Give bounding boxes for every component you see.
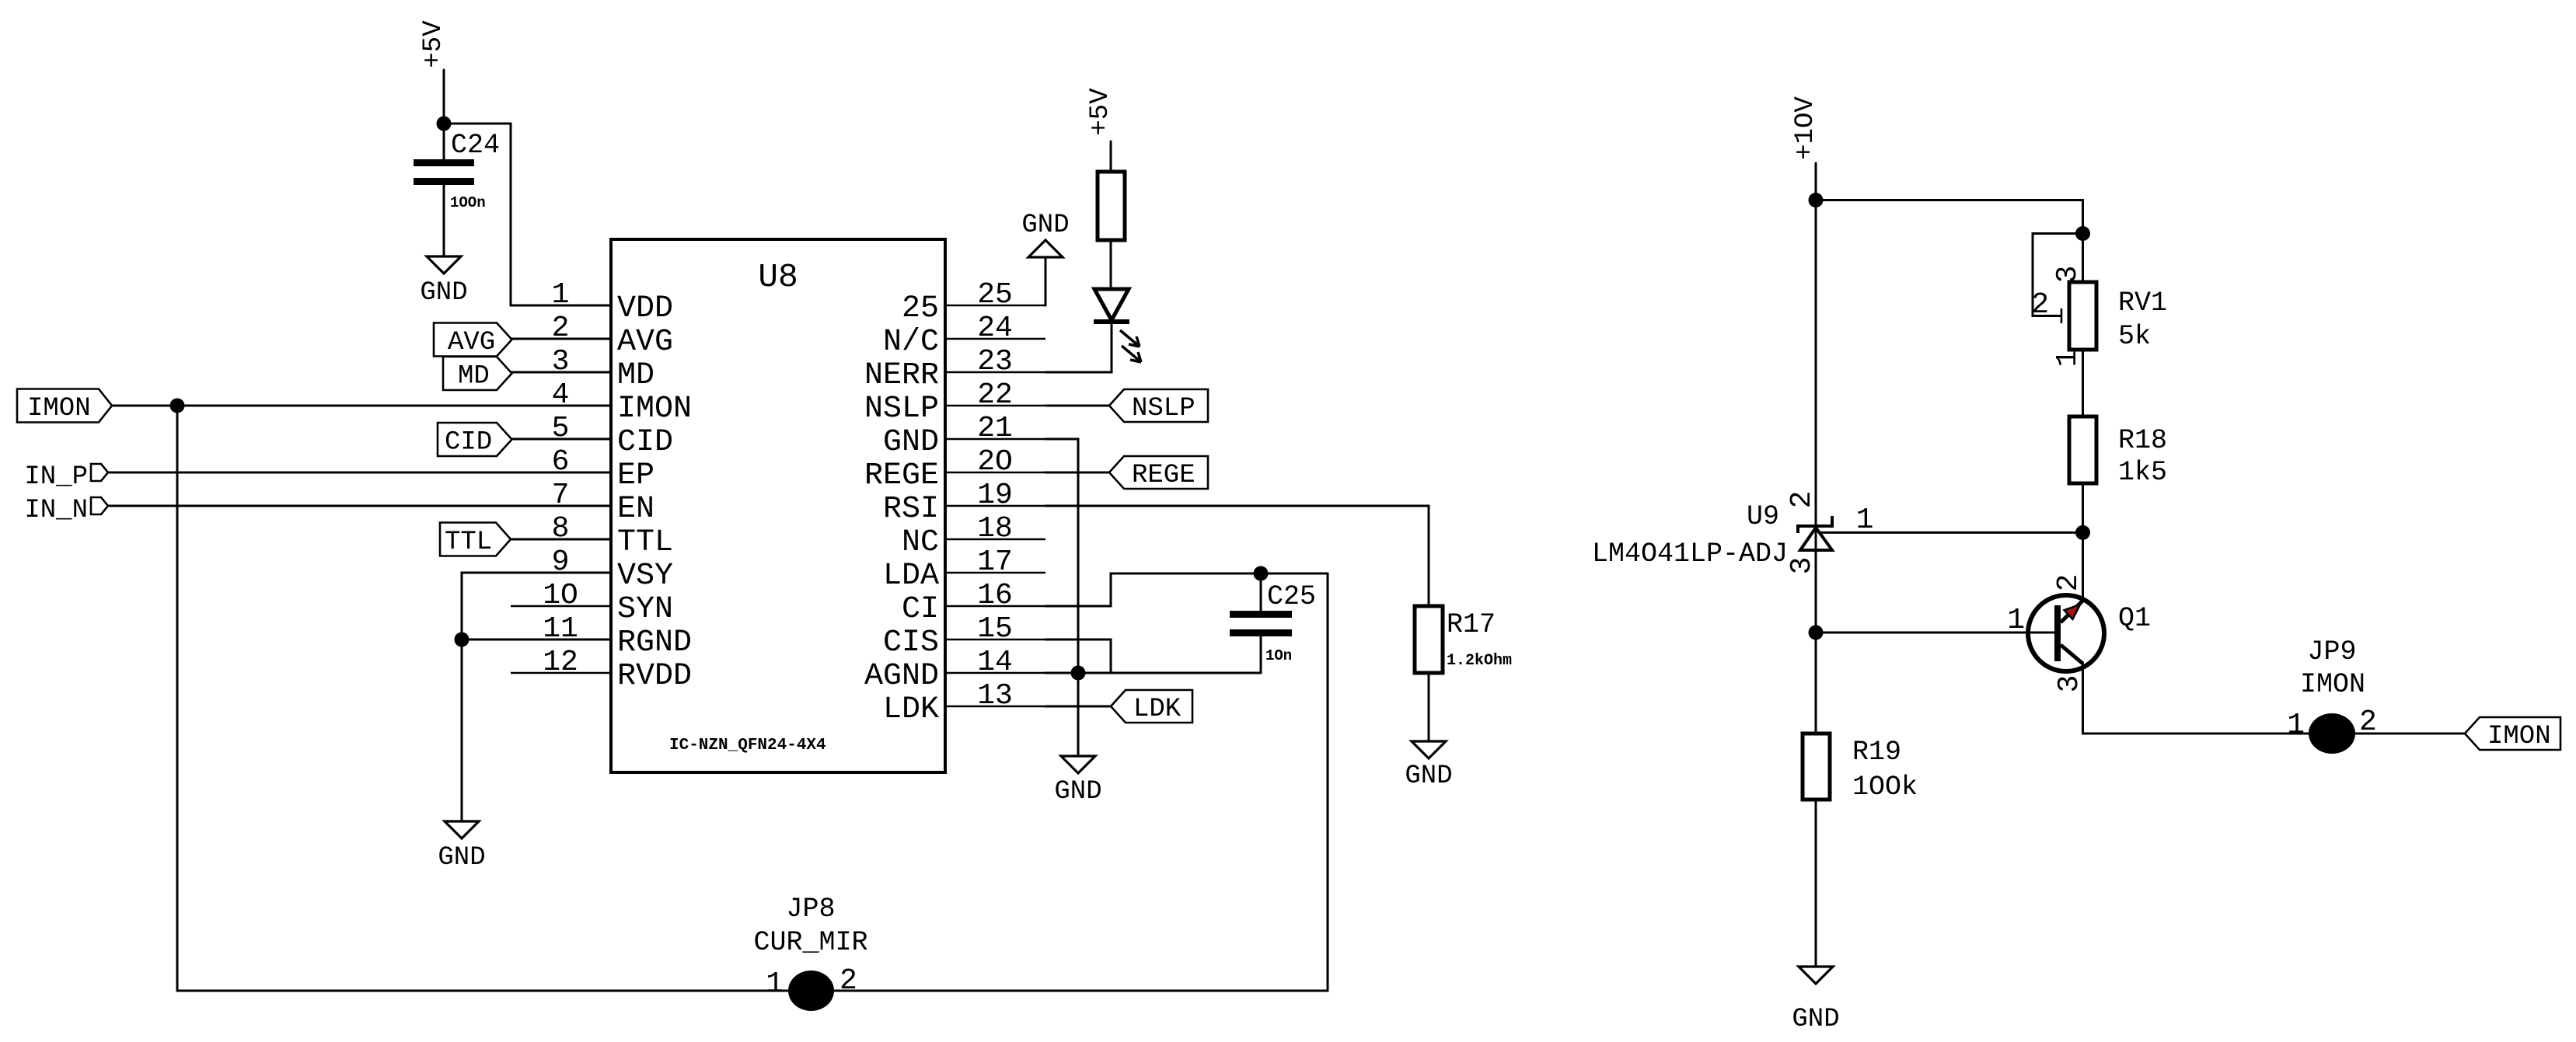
svg-text:1: 1 [1856,504,1874,537]
pin 24 N/C [945,338,1045,340]
svg-text:AVG: AVG [448,328,495,357]
pin 16 CI [945,605,1045,608]
pin 20 REGE [945,472,1045,474]
net label LDK [1111,690,1192,723]
svg-text:3: 3 [552,345,570,378]
transistor Q1 [2028,595,2104,671]
pin 23 NERR [945,371,1045,374]
svg-text:1.2kOhm: 1.2kOhm [1447,652,1512,670]
wire pin 15 CIS down to AGND net [1045,639,1111,673]
junction C25 top [1254,566,1269,581]
capacitor C25 [1260,573,1262,611]
svg-text:IMON: IMON [2487,722,2551,751]
svg-text:2: 2 [1785,491,1819,509]
svg-text:GND: GND [1021,211,1069,240]
resistor R18 [2069,416,2096,483]
resistor (LED series) [1098,172,1125,240]
wire AVG to pin 2 [512,338,612,340]
wire IN_N to pin 7 EN [108,505,611,507]
svg-text:1: 1 [2051,350,2085,368]
pin 5 CID [511,438,611,441]
svg-text:IN_P: IN_P [24,462,88,492]
svg-text:LDK: LDK [1133,695,1182,724]
svg-text:1O: 1O [543,579,578,612]
svg-text:24: 24 [977,312,1013,345]
junction RGND [455,633,469,647]
svg-text:1OOn: 1OOn [450,194,486,211]
svg-text:12: 12 [543,646,578,679]
wire +10V to RV1 [1816,200,2083,283]
svg-text:NSLP: NSLP [1132,394,1196,423]
potentiometer RV1 [2069,282,2096,350]
svg-text:AGND: AGND [864,659,939,694]
svg-text:2: 2 [839,964,857,998]
svg-text:JP8: JP8 [786,894,835,925]
svg-text:6: 6 [552,445,570,479]
LED emission arrows [1120,330,1140,347]
svg-text:25: 25 [977,278,1013,312]
ground (pin 21/AGND) [1061,756,1095,773]
pin 19 RSI [945,505,1045,507]
wire JP9 to IMON label [2355,733,2465,735]
wire pin 22 to NSLP [1045,405,1109,407]
shunt reference U9 LM4041 [1798,516,1832,533]
wire R18 to Q1 emitter [2082,483,2084,600]
pin 6 EP [511,472,611,474]
svg-text:CID: CID [617,425,673,460]
pin 10 SYN [511,605,611,608]
pin 9 VSY [511,572,611,574]
pin 25 25 [945,305,1045,307]
junction R18/U9 [2075,525,2090,540]
svg-text:IMON: IMON [2300,669,2365,700]
wire +5V to resistor [1110,141,1112,172]
svg-text:LM4O41LP-ADJ: LM4O41LP-ADJ [1592,538,1788,570]
wire CID to pin 5 [512,438,612,441]
ground (C24) [427,256,461,274]
svg-text:1: 1 [552,278,570,312]
svg-text:CI: CI [902,592,939,627]
svg-text:21: 21 [977,412,1013,445]
svg-text:R17: R17 [1447,609,1496,640]
svg-text:R19: R19 [1852,737,1901,768]
wire pin 21 GND down [1045,439,1078,756]
junction RV1 top/wiper [2075,226,2090,241]
svg-text:VDD: VDD [617,291,673,326]
wire IMON vertical to JP8 [176,406,179,991]
wire RV1 wiper loop [2033,234,2083,316]
LED D (anode top) [1094,289,1129,320]
svg-text:EN: EN [617,492,654,527]
ground (R19) [1799,967,1833,984]
wire +5V to C24 [443,70,445,159]
net label TTL [440,523,511,556]
pin 17 LDA [945,572,1045,574]
svg-text:R18: R18 [2118,425,2167,456]
svg-text:2O: 2O [977,445,1013,479]
svg-text:23: 23 [977,345,1013,378]
wire pin 13 to LDK [1045,706,1111,708]
svg-text:2: 2 [2031,288,2049,322]
pin 11 RGND [511,639,611,641]
svg-text:GND: GND [420,278,467,308]
svg-text:GND: GND [1405,761,1452,791]
wire RV1 to R18 [2082,350,2084,416]
svg-text:GND: GND [438,843,485,873]
wire Q1 collector to JP9 [2083,664,2309,734]
resistor R19 [1803,734,1830,800]
svg-text:NC: NC [902,525,939,560]
svg-text:REGE: REGE [1132,461,1196,490]
wire R17 to GND [1428,673,1430,741]
pin 13 LDK [945,706,1045,708]
svg-text:+1OV: +1OV [1791,96,1820,160]
svg-text:GND: GND [1792,1005,1839,1034]
svg-text:4: 4 [552,378,570,412]
svg-text:15: 15 [977,612,1013,646]
junction IMON [170,399,185,413]
svg-text:VSY: VSY [617,559,673,594]
svg-text:IMON: IMON [27,394,91,423]
svg-text:1k5: 1k5 [2118,457,2167,488]
pin 3 MD [511,371,611,374]
svg-text:N/C: N/C [883,325,939,360]
svg-text:14: 14 [977,646,1013,679]
wire C24 to GND [443,185,445,256]
junction GND/AGND [1071,666,1086,681]
wire pin 14 AGND to C25 bottom [1045,672,1261,674]
pin 14 AGND [945,672,1045,674]
net label IMON (right) [2465,717,2560,750]
svg-text:1: 1 [2287,709,2305,742]
net label NSLP [1109,389,1208,422]
net label REGE [1109,456,1208,489]
svg-text:19: 19 [977,479,1013,512]
svg-text:U8: U8 [758,258,798,296]
svg-text:MD: MD [617,358,654,393]
capacitor C24 [414,159,474,166]
svg-text:1: 1 [766,967,784,1001]
svg-text:C24: C24 [451,130,500,161]
wire pin 25 to GND [1045,257,1047,305]
net label AVG [434,323,512,357]
svg-text:16: 16 [977,579,1013,612]
svg-text:IMON: IMON [617,392,692,427]
svg-text:8: 8 [552,512,570,545]
wire pin 19 RSI to R17 [1045,506,1429,606]
svg-text:JP9: JP9 [2307,636,2356,667]
pin 18 NC [945,538,1045,541]
svg-text:25: 25 [902,291,939,326]
wire +10V main vertical [1815,163,1817,734]
svg-text:22: 22 [977,378,1013,412]
net label CID [438,423,512,456]
svg-text:5: 5 [552,412,570,445]
svg-text:3: 3 [2051,266,2085,284]
svg-text:11: 11 [543,612,578,646]
wire TTL to pin 8 [511,538,611,541]
net label MD [443,357,512,390]
svg-text:Q1: Q1 [2118,603,2151,634]
svg-text:CUR_MIR: CUR_MIR [753,927,867,958]
svg-text:2: 2 [552,312,570,345]
svg-text:RGND: RGND [617,626,692,660]
jumper JP8 [788,971,834,1011]
svg-text:GND: GND [1054,777,1101,807]
wire U9 pin 1 [1819,531,2083,534]
svg-text:IC-NZN_QFN24-4X4: IC-NZN_QFN24-4X4 [669,737,826,754]
pin 15 CIS [945,639,1045,641]
svg-text:MD: MD [458,362,490,392]
svg-text:RVDD: RVDD [617,659,692,694]
pin 22 NSLP [945,405,1045,407]
wire R19 to GND [1815,800,1817,967]
svg-text:9: 9 [552,545,570,579]
net label IMON (left) [17,389,112,423]
wire resistor to LED [1110,240,1112,288]
pin 2 AVG [511,338,611,340]
svg-text:3: 3 [1785,557,1819,575]
pin 7 EN [511,505,611,507]
svg-text:1On: 1On [1265,647,1292,664]
svg-text:5k: 5k [2118,321,2151,352]
junction +10V [1809,193,1824,207]
wire LED to pin 23 NERR [1045,324,1112,372]
pin 21 GND [945,438,1045,441]
svg-text:13: 13 [977,679,1013,713]
svg-text:RSI: RSI [883,492,939,527]
wire +5V to pin 1 VDD [444,124,611,305]
ground (pin 25, arrow up) [1028,240,1063,257]
svg-text:1: 1 [2007,604,2025,637]
junction U9/Q1 base [1809,626,1824,640]
svg-text:RV1: RV1 [2118,288,2167,319]
svg-text:AVG: AVG [617,325,673,360]
svg-text:LDA: LDA [883,559,939,594]
pin 12 RVDD [511,672,611,674]
resistor R17 [1415,606,1443,673]
svg-text:17: 17 [977,545,1013,579]
ground (VSY/RGND) [445,821,479,838]
IC U8 [611,239,945,772]
svg-text:IN_N: IN_N [24,496,88,525]
svg-text:18: 18 [977,512,1013,545]
svg-text:1OOk: 1OOk [1852,772,1918,803]
svg-text:LDK: LDK [883,692,939,727]
svg-text:CID: CID [445,428,492,458]
wire pin 16 CI to C25 top [1045,573,1328,606]
svg-text:C25: C25 [1267,581,1316,612]
wire C25 net to JP8 (long vertical + bottom run) [177,573,1328,991]
svg-text:NSLP: NSLP [864,392,939,427]
svg-text:3: 3 [2053,675,2086,693]
svg-text:NERR: NERR [864,358,939,393]
svg-text:SYN: SYN [617,592,673,627]
svg-text:+5V: +5V [1086,88,1115,136]
wire IMON to pin 4 [112,405,611,407]
svg-text:2: 2 [2052,574,2086,592]
wire pin 20 to REGE [1045,472,1109,474]
ground (R17) [1412,741,1446,758]
svg-text:CIS: CIS [883,626,939,660]
svg-text:TTL: TTL [445,528,492,557]
wire MD to pin 3 [512,371,612,374]
svg-text:GND: GND [883,425,939,460]
wire VSY/RGND to GND [462,573,611,821]
wire Q1 base [1816,632,2054,634]
svg-text:7: 7 [552,479,570,512]
pin 8 TTL [511,538,611,541]
pin 4 IMON [511,405,611,407]
svg-text:U9: U9 [1747,501,1779,532]
svg-text:REGE: REGE [864,458,939,493]
svg-text:+5V: +5V [419,20,449,68]
svg-text:EP: EP [617,458,654,493]
svg-text:TTL: TTL [617,525,673,560]
jumper JP9 [2309,713,2355,754]
junction +5V/C24/VDD [437,117,452,131]
wire IN_P to pin 6 EP [108,472,611,474]
